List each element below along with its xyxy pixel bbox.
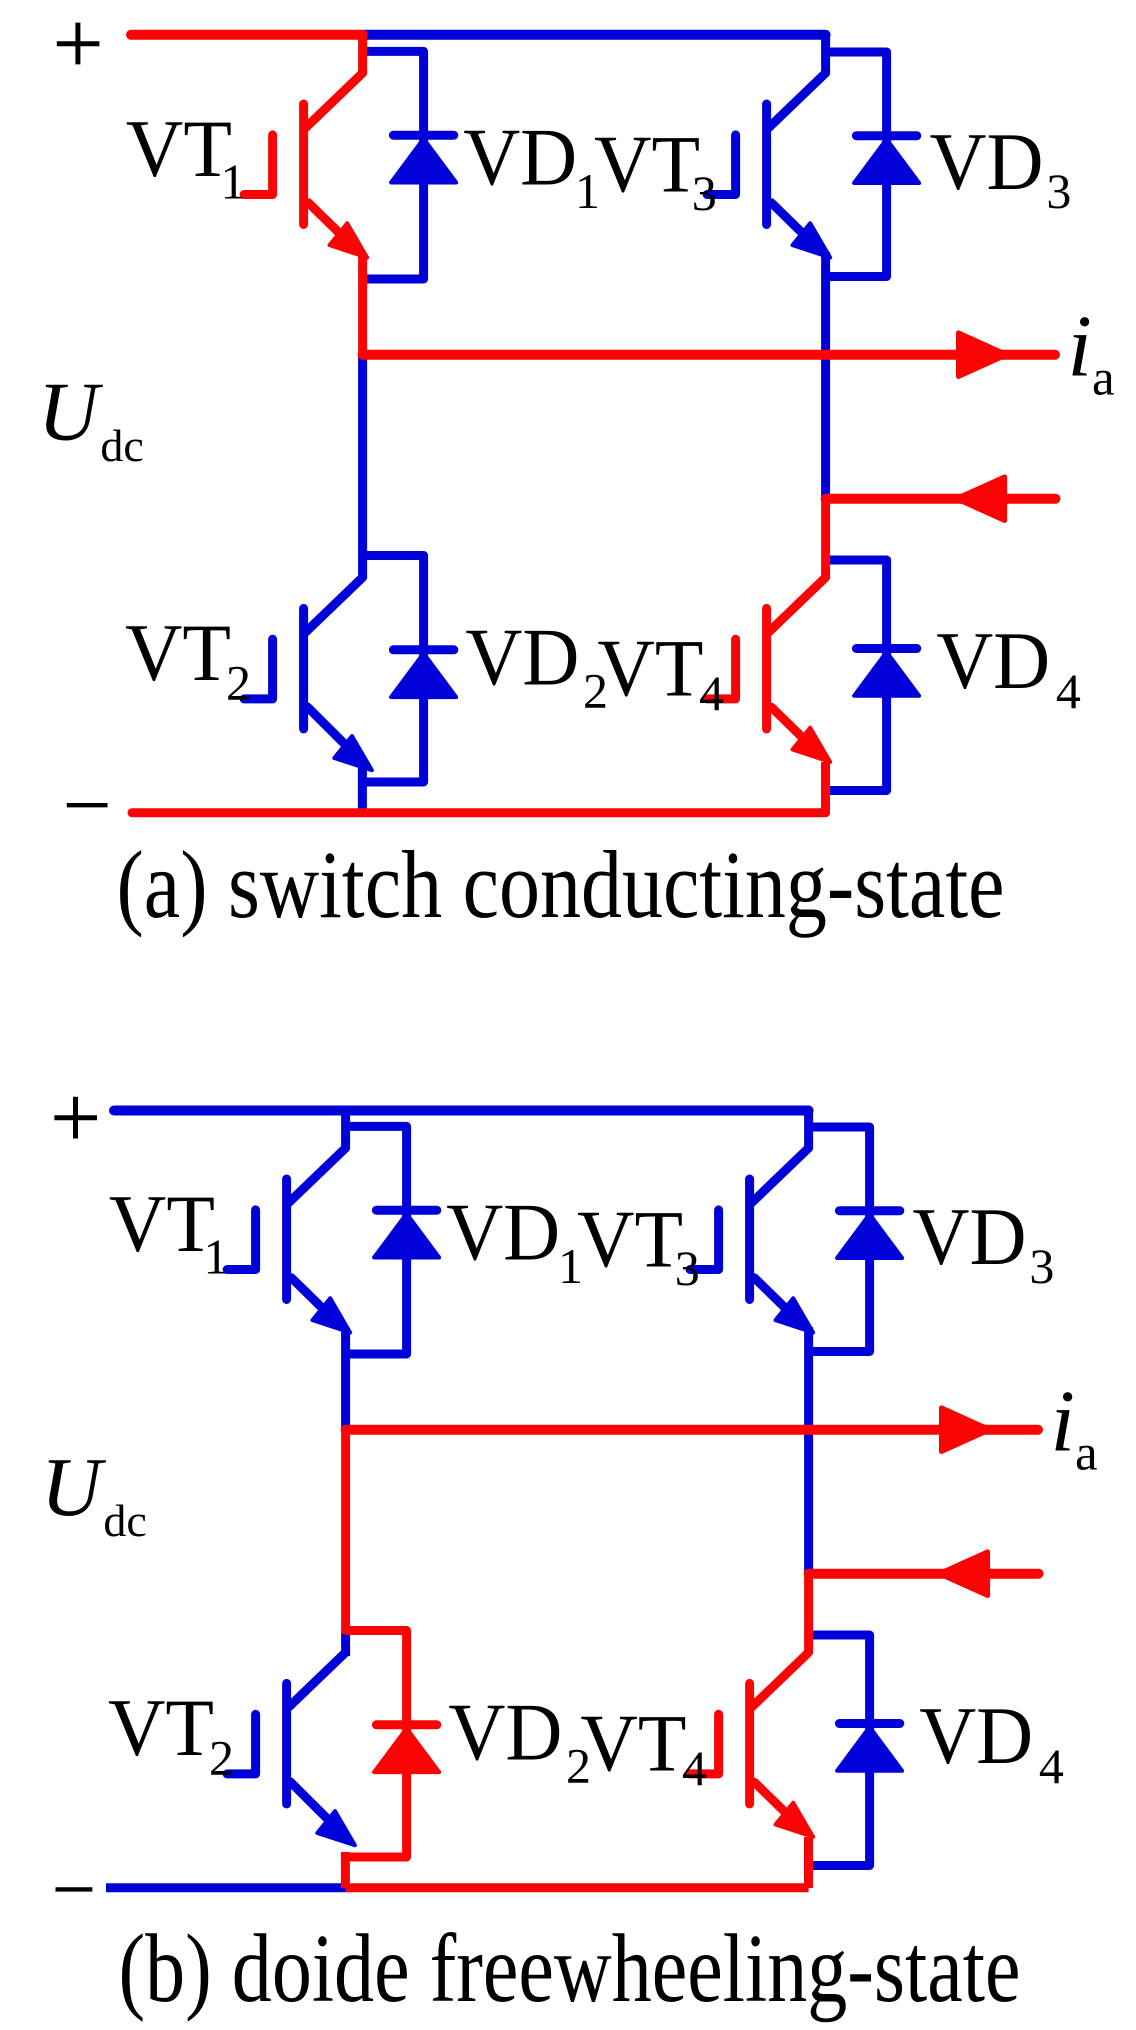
wire: VT3 collector (b) <box>804 1111 813 1150</box>
svg-text:3: 3 <box>692 165 717 221</box>
arrow on return line (a) <box>956 477 1004 521</box>
svg-text:i: i <box>1051 1374 1075 1471</box>
wire: bottom rail red segment (b) <box>346 1883 809 1892</box>
diode VD2 (b) <box>374 1725 439 1772</box>
label i_a (a) <box>1068 299 1115 407</box>
svg-text:i: i <box>1068 299 1092 396</box>
svg-text:VD: VD <box>465 612 579 703</box>
svg-text:dc: dc <box>103 1495 146 1546</box>
svg-text:3: 3 <box>1046 163 1071 219</box>
svg-text:U: U <box>38 366 104 459</box>
wire: right leg node to VT4 (b) <box>804 1574 813 1654</box>
svg-text:(a) switch conducting-state: (a) switch conducting-state <box>117 831 1005 938</box>
wire: VT4 emitter to bottom rail (a) <box>821 762 830 813</box>
transistor VT2 (b) <box>227 1652 355 1845</box>
transistor VT1 (b) <box>227 1148 350 1333</box>
arrow on output line i_a (a) <box>959 333 1007 377</box>
svg-text:(b) doide freewheeling-state: (b) doide freewheeling-state <box>119 1915 1021 2023</box>
wire: VD2 branch (b) <box>347 1631 407 1858</box>
svg-text:1: 1 <box>221 154 246 210</box>
wire: right leg node to VT4 (a) <box>821 499 830 579</box>
diode VD3 (b) <box>837 1211 902 1258</box>
diode VD1 (a) <box>391 135 456 182</box>
plus terminal (b) <box>54 1097 97 1139</box>
wire: top rail red segment from + (a) <box>131 30 363 40</box>
wire: top rail blue segment (a) <box>364 30 826 40</box>
wire: VT3 collector (a) <box>821 35 830 74</box>
wire: bottom rail (a) <box>132 808 826 817</box>
transistor VT4 (a) <box>707 577 830 762</box>
svg-text:VT: VT <box>109 1178 215 1269</box>
svg-text:VT: VT <box>126 103 232 194</box>
wire: VT1 collector (b) <box>341 1111 350 1150</box>
svg-text:VD: VD <box>930 116 1044 207</box>
diode VD1 (b) <box>374 1210 439 1257</box>
wire: VD4 branch (a) <box>828 560 887 791</box>
transistor VT1 (a) <box>244 73 367 258</box>
svg-text:2: 2 <box>209 1730 234 1786</box>
svg-text:a: a <box>1092 350 1115 406</box>
label VT1 (b) <box>109 1178 229 1285</box>
svg-text:a: a <box>1075 1425 1098 1481</box>
wire: VT3 emitter to output node (b) <box>804 1327 813 1574</box>
svg-text:4: 4 <box>1039 1738 1064 1794</box>
wire: VD1 branch (b) <box>347 1126 407 1354</box>
wire: VD3 branch (a) <box>828 52 887 277</box>
diode VD4 (b) <box>837 1724 902 1771</box>
svg-text:VT: VT <box>580 1698 686 1789</box>
wire: VD1 branch (a) <box>364 51 424 279</box>
label VD2 (b) <box>448 1687 591 1794</box>
wire: VT1 collector (a) <box>358 35 367 74</box>
label VD4 (a) <box>936 615 1081 719</box>
label VD2 (a) <box>465 612 608 719</box>
transistor VT3 (b) <box>690 1148 813 1333</box>
svg-text:VT: VT <box>125 607 231 698</box>
svg-text:VD: VD <box>913 1191 1027 1282</box>
wire: output line i_a (b) <box>346 1425 1038 1435</box>
wire: VT3 emitter to output node (a) <box>821 252 830 499</box>
diode VD2 (a) <box>391 650 456 697</box>
label VT2 (b) <box>108 1682 234 1785</box>
wire: VT1 emitter to output node (b) <box>341 1330 350 1431</box>
label VD4 (b) <box>919 1690 1064 1794</box>
svg-text:4: 4 <box>682 1740 707 1796</box>
svg-text:VD: VD <box>448 1687 562 1778</box>
wire: VT1 emitter to output node (a) <box>358 255 367 356</box>
label VT3 (a) <box>594 119 717 222</box>
label VT1 (a) <box>126 103 246 210</box>
wire: left leg node to VT2 (a) <box>358 355 367 578</box>
label VT3 (b) <box>577 1194 700 1297</box>
minus terminal (b) <box>56 1887 93 1891</box>
transistor VT4 (b) <box>690 1652 813 1837</box>
svg-text:3: 3 <box>1029 1238 1054 1294</box>
wire: VD4 branch (b) <box>811 1635 870 1866</box>
wire: left leg node to VT2 (b) <box>341 1430 350 1634</box>
svg-text:U: U <box>41 1441 107 1534</box>
wire: return line (b) <box>809 1569 1039 1579</box>
diode VD3 (a) <box>854 136 919 183</box>
svg-text:VD: VD <box>446 1187 560 1278</box>
wire: VT2 emitter to bottom rail (a) <box>358 764 367 813</box>
wire: output line i_a (a) <box>363 350 1055 360</box>
svg-text:4: 4 <box>699 665 724 721</box>
svg-text:4: 4 <box>1056 663 1081 719</box>
svg-text:VT: VT <box>577 1194 683 1285</box>
wire: return line (a) <box>826 494 1056 504</box>
wire: VD2 branch (a) <box>364 556 424 783</box>
label VT4 (a) <box>597 623 724 721</box>
wire: VT2 emitter to bottom rail (b) <box>341 1852 350 1888</box>
wire: bottom rail blue segment (b) <box>106 1883 350 1892</box>
diode VD4 (a) <box>854 649 919 696</box>
svg-text:VD: VD <box>919 1690 1033 1781</box>
label VD1 (a) <box>463 112 600 219</box>
label VT4 (b) <box>580 1698 707 1796</box>
label U_dc (a) <box>38 366 144 471</box>
wire: VD3 branch (b) <box>811 1127 870 1352</box>
arrow on return line (b) <box>939 1552 987 1596</box>
svg-text:VD: VD <box>936 615 1050 706</box>
svg-text:VT: VT <box>594 119 700 210</box>
arrow on output line i_a (b) <box>942 1408 990 1452</box>
label VD1 (b) <box>446 1187 583 1294</box>
transistor VT3 (a) <box>707 73 830 258</box>
svg-text:2: 2 <box>226 655 251 711</box>
label VD3 (a) <box>930 116 1072 219</box>
wire: top rail (b) <box>114 1106 809 1116</box>
svg-text:VD: VD <box>463 112 577 203</box>
svg-text:1: 1 <box>204 1229 229 1285</box>
label i_a (b) <box>1051 1374 1098 1482</box>
svg-text:VT: VT <box>108 1682 214 1773</box>
wire: VT4 emitter to bottom rail (b) <box>804 1837 813 1888</box>
label VD3 (b) <box>913 1191 1055 1294</box>
svg-text:3: 3 <box>675 1240 700 1296</box>
label VT2 (a) <box>125 607 251 710</box>
transistor VT2 (a) <box>244 577 372 770</box>
plus terminal (a) <box>57 23 100 65</box>
svg-text:dc: dc <box>100 420 143 471</box>
wire: VT2 collector stub (b) <box>341 1632 350 1656</box>
svg-text:VT: VT <box>597 623 703 714</box>
minus terminal (a) <box>67 803 108 807</box>
label U_dc (b) <box>41 1441 147 1546</box>
